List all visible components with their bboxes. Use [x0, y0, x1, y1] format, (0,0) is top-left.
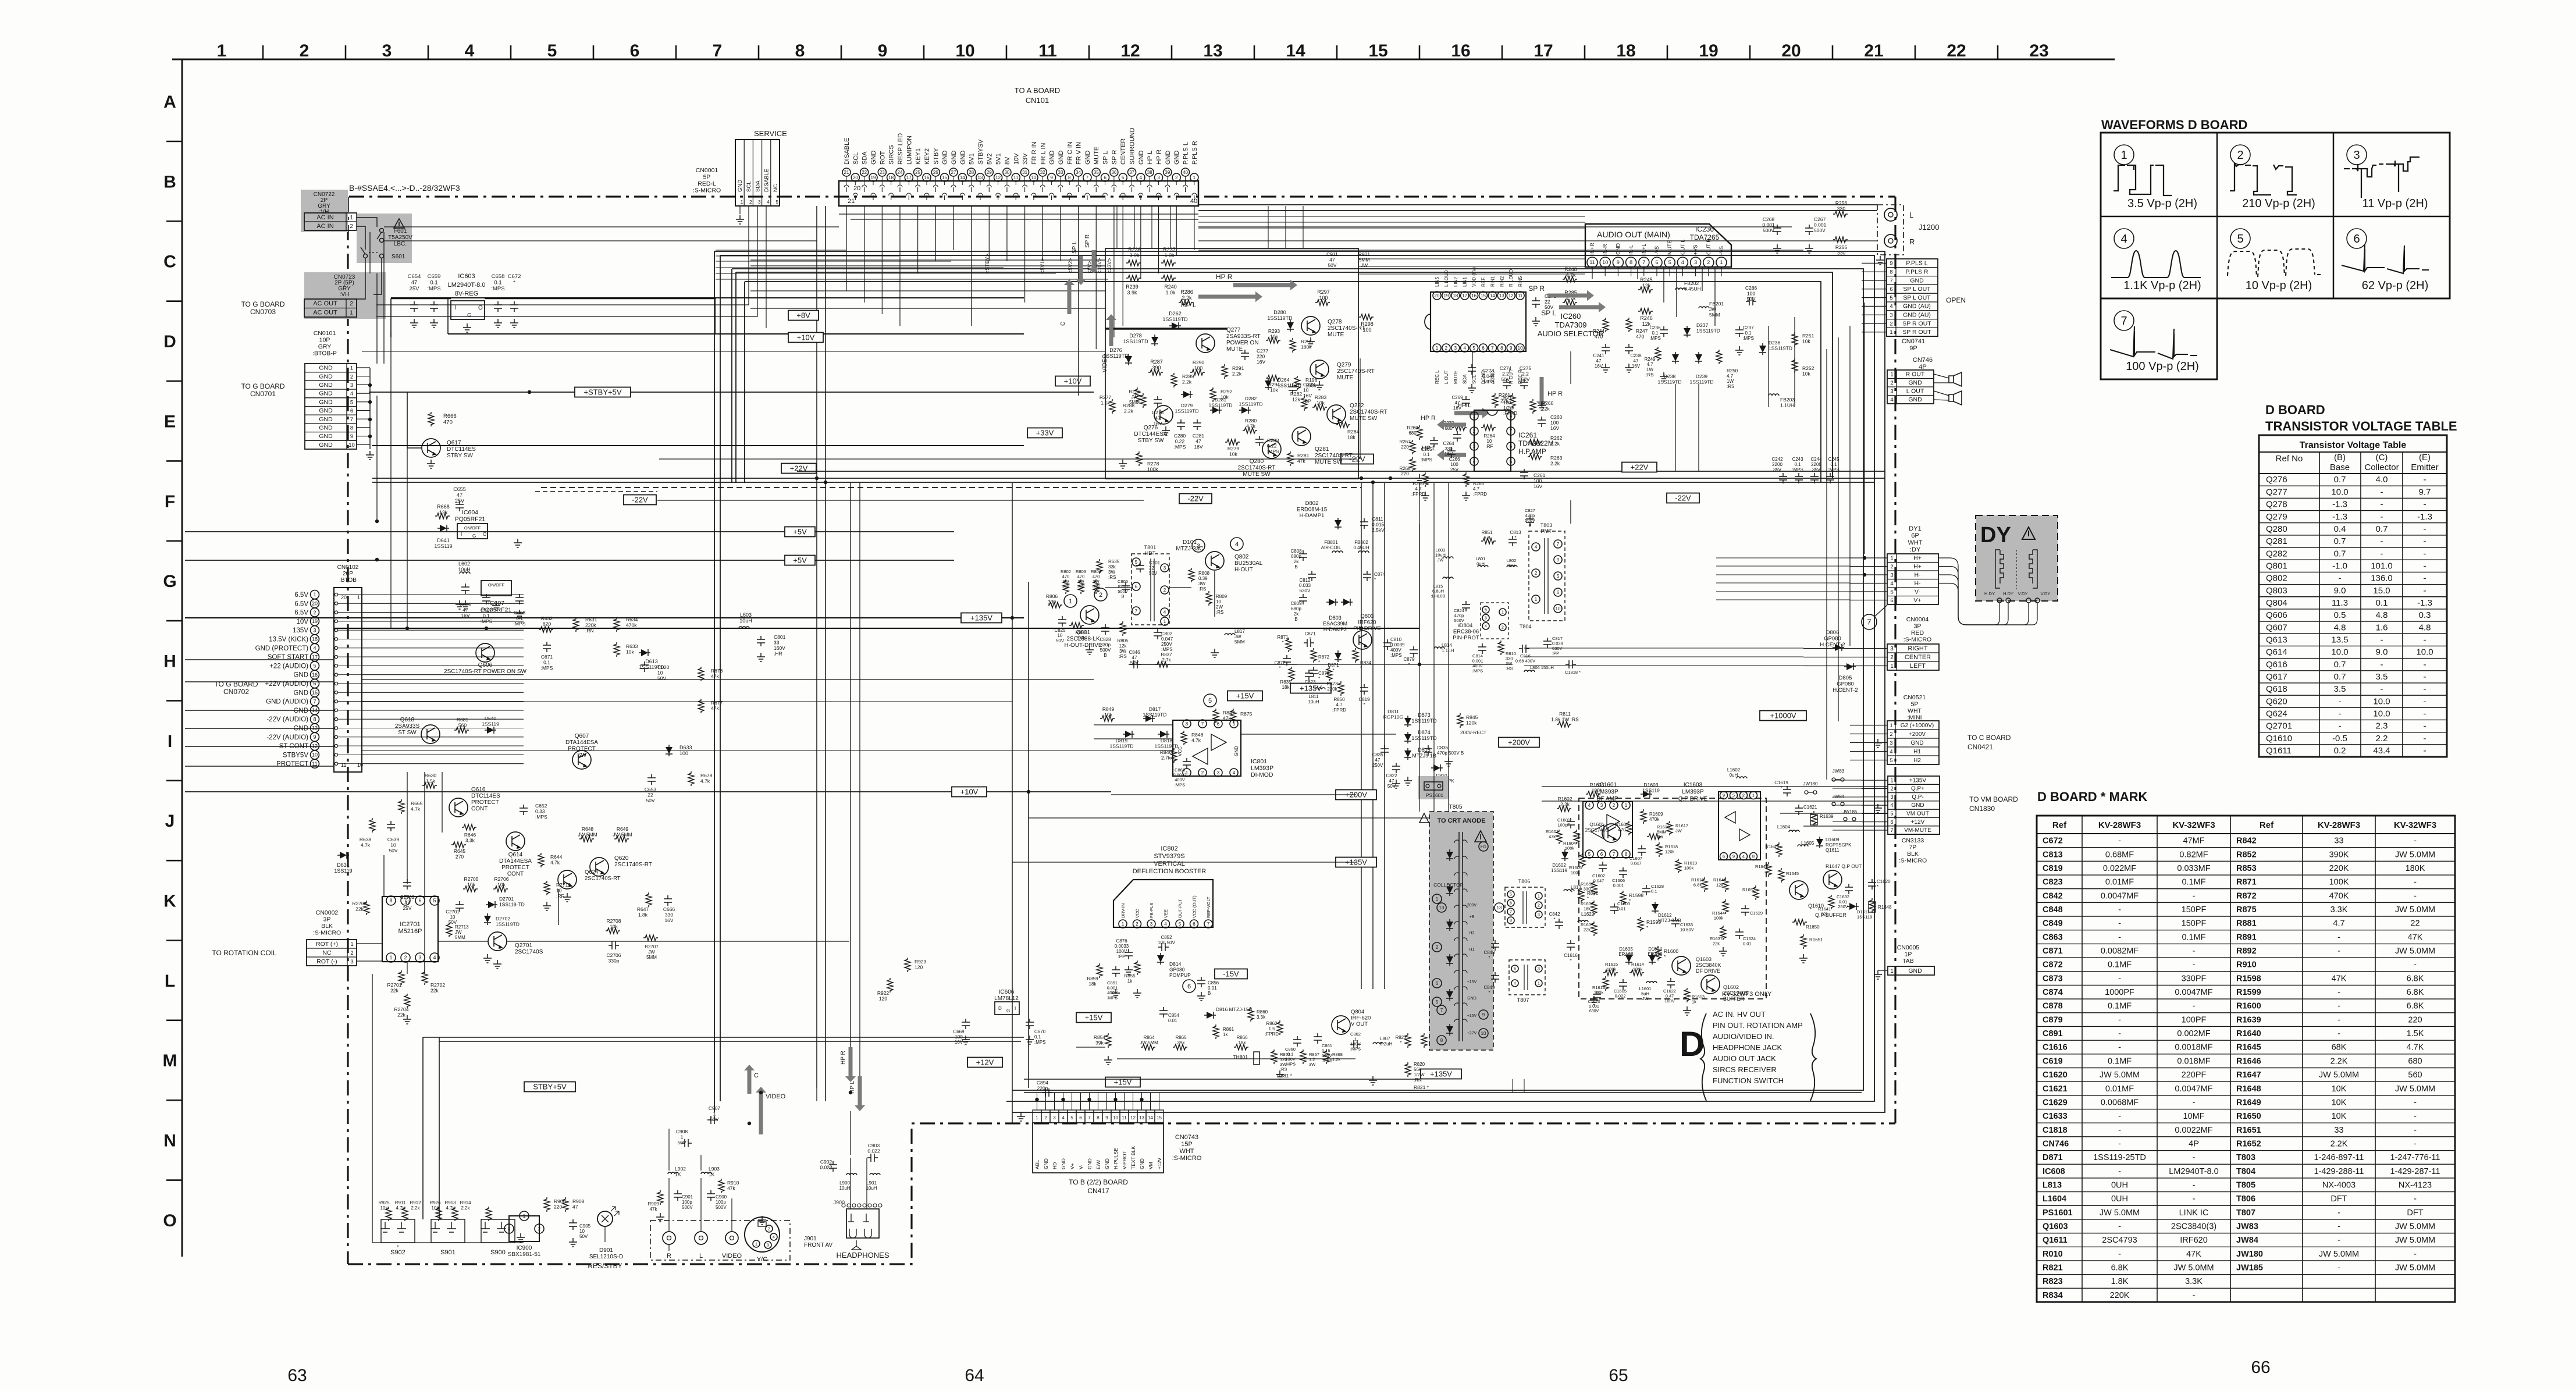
- svg-text:16V: 16V: [1257, 359, 1265, 365]
- svg-text:D1605: D1605: [1619, 947, 1633, 952]
- svg-text:GND (PROTECT): GND (PROTECT): [255, 645, 309, 652]
- svg-text:4: 4: [1890, 304, 1892, 310]
- resistor R2706: [493, 886, 508, 892]
- svg-text:220PF: 220PF: [2182, 1070, 2207, 1080]
- svg-text:NC: NC: [773, 184, 779, 192]
- svg-text:-: -: [2381, 500, 2383, 510]
- wire: DY1 to yoke curves: [1938, 558, 1999, 625]
- svg-text:C267: C267: [1814, 216, 1826, 222]
- svg-text:100k: 100k: [1633, 967, 1643, 972]
- svg-text:SCL: SCL: [746, 182, 752, 192]
- resistor R644: [538, 853, 544, 867]
- svg-text:*: *: [1309, 636, 1311, 642]
- svg-text:R282: R282: [1290, 391, 1303, 397]
- svg-text:-: -: [2337, 947, 2340, 956]
- svg-text:WHT: WHT: [1179, 1148, 1194, 1155]
- svg-text:0.22: 0.22: [1175, 439, 1185, 444]
- resistor R803: [1078, 579, 1084, 594]
- svg-text:PS1601: PS1601: [1426, 792, 1444, 798]
- diode D282: [1239, 407, 1251, 414]
- svg-text:I: I: [168, 732, 172, 751]
- svg-text:C653: C653: [645, 787, 657, 792]
- svg-text::RN: :RN: [1414, 1077, 1422, 1083]
- capacitor C861: [1314, 1033, 1322, 1044]
- wire: mesh verticals: [1663, 267, 1664, 303]
- svg-text:LEFT: LEFT: [1910, 663, 1926, 670]
- ground CN0743: [1017, 1112, 1025, 1121]
- svg-text:2SC1740S-RT: 2SC1740S-RT: [1328, 325, 1365, 332]
- svg-text:210 Vp-p (2H): 210 Vp-p (2H): [2242, 197, 2315, 210]
- svg-text:4: 4: [1890, 397, 1893, 403]
- capacitor C856: [1197, 977, 1205, 987]
- transistor Q278 2SC1740S-RT MUTE: [1301, 316, 1320, 335]
- svg-text:0.33: 0.33: [535, 809, 545, 814]
- svg-text:1SS119TD: 1SS119TD: [1769, 346, 1792, 351]
- svg-text:Q281: Q281: [1315, 446, 1329, 453]
- svg-text:J1200: J1200: [1919, 223, 1939, 232]
- svg-text:50V: 50V: [449, 920, 457, 925]
- capacitor C243: [1795, 473, 1803, 483]
- resistor R823b: [1405, 1033, 1411, 1048]
- coil L802: [1507, 565, 1517, 567]
- svg-text:0.033MF: 0.033MF: [2177, 864, 2210, 873]
- capacitor C1606: [1619, 867, 1627, 878]
- svg-text:R237: R237: [1163, 247, 1176, 252]
- svg-text:T803: T803: [1540, 522, 1553, 528]
- svg-text:+135V: +135V: [970, 613, 992, 622]
- svg-text:GND: GND: [319, 433, 333, 440]
- svg-text:S900: S900: [490, 1249, 506, 1256]
- svg-text:4.7k: 4.7k: [396, 1205, 405, 1211]
- svg-text:-: -: [2424, 721, 2426, 731]
- svg-text:GND: GND: [1104, 1158, 1110, 1169]
- svg-text:R871: R871: [2236, 878, 2257, 887]
- svg-text:470k: 470k: [1649, 817, 1660, 822]
- svg-text:G2 (+1000V): G2 (+1000V): [1901, 723, 1934, 729]
- svg-text:OPEN: OPEN: [1946, 296, 1966, 304]
- svg-text:-: -: [2193, 891, 2196, 901]
- resistor R811: [1557, 721, 1571, 727]
- svg-text:Q802: Q802: [2266, 574, 2287, 584]
- svg-text:0UH: 0UH: [2111, 1180, 2128, 1190]
- svg-text:D278: D278: [1129, 333, 1142, 339]
- svg-text:0.047: 0.047: [1482, 373, 1495, 379]
- svg-text:C802: C802: [1161, 631, 1173, 636]
- svg-text:1.5K: 1.5K: [2407, 1029, 2424, 1038]
- svg-text:R298: R298: [1361, 321, 1374, 327]
- svg-text:2: 2: [538, 1226, 541, 1232]
- resistor R1641: [1828, 895, 1834, 909]
- svg-text:33: 33: [2334, 1126, 2343, 1135]
- svg-text:HP L: HP L: [1181, 301, 1197, 309]
- capacitor C801: [757, 636, 765, 646]
- wire: left feed wires: [185, 659, 334, 660]
- capacitor C876: [1125, 949, 1133, 959]
- svg-text:0uH: 0uH: [1476, 561, 1485, 567]
- connector CN0002 ROT: [307, 940, 357, 966]
- svg-text:WHT: WHT: [1908, 539, 1922, 546]
- svg-text:Q606: Q606: [2266, 610, 2287, 620]
- svg-text:9: 9: [1482, 1012, 1485, 1018]
- svg-text:VM: VM: [1148, 1162, 1154, 1169]
- mark table frame: [2037, 816, 2455, 1302]
- svg-text:L: L: [699, 1253, 703, 1260]
- svg-text:0.0047MF: 0.0047MF: [2175, 988, 2212, 997]
- svg-text:-: -: [2424, 684, 2426, 694]
- svg-text:SW: SW: [577, 752, 587, 759]
- svg-text:-: -: [2118, 837, 2121, 846]
- svg-text:D871: D871: [2043, 1153, 2063, 1162]
- arrow HP L bottom: [855, 1076, 865, 1111]
- svg-text:7: 7: [1207, 922, 1210, 927]
- svg-text:19: 19: [312, 618, 318, 624]
- diode D803 ESAC39M H-DAMP2: [1326, 599, 1338, 606]
- IC IC261 TDA2822M H.P.AMP: [1474, 410, 1511, 471]
- svg-text:-: -: [2193, 960, 2196, 970]
- svg-text:3W: 3W: [1119, 649, 1126, 654]
- svg-text:330p: 330p: [609, 958, 620, 964]
- svg-text:0.001: 0.001: [1613, 883, 1624, 888]
- svg-text:+12V: +12V: [1157, 1158, 1162, 1169]
- wire: +5V bus 1: [185, 531, 954, 532]
- svg-text:Q803: Q803: [1360, 613, 1374, 620]
- svg-text:-: -: [2424, 586, 2426, 596]
- flyback transformer T805 shaded block TO CRT ANODE: [1429, 812, 1493, 1050]
- svg-text:47K: 47K: [2332, 974, 2347, 983]
- voltage box +10V c: [952, 787, 987, 797]
- svg-text::MPS: :MPS: [1742, 336, 1754, 341]
- jumper JW185: [1844, 817, 1847, 821]
- svg-text:BLK: BLK: [1907, 851, 1919, 858]
- svg-text:MUTE SW: MUTE SW: [1243, 471, 1271, 478]
- svg-text:C1616: C1616: [1564, 953, 1578, 958]
- svg-text:0.1: 0.1: [1652, 330, 1659, 336]
- svg-text:TRANSISTOR VOLTAGE TABLE: TRANSISTOR VOLTAGE TABLE: [2265, 419, 2457, 433]
- svg-text:1.1UH: 1.1UH: [1780, 403, 1794, 408]
- capacitor C824: [1462, 601, 1470, 611]
- svg-text:3: 3: [1217, 770, 1220, 775]
- svg-text:-: -: [2424, 536, 2426, 546]
- resistor R810: [1498, 641, 1504, 655]
- svg-text::LHL0B: :LHL0B: [1431, 593, 1445, 599]
- svg-text:Q607: Q607: [2266, 622, 2287, 632]
- svg-text::S-MICRO: :S-MICRO: [1903, 636, 1931, 643]
- svg-text:6: 6: [350, 408, 353, 414]
- svg-text:IN+R: IN+R: [1589, 243, 1595, 255]
- svg-text:-: -: [2424, 549, 2426, 558]
- svg-text:4: 4: [773, 1236, 775, 1240]
- svg-text:1: 1: [217, 41, 227, 61]
- svg-text:-22V: -22V: [632, 495, 648, 504]
- svg-text:RED: RED: [1911, 629, 1924, 636]
- svg-text:20: 20: [853, 185, 860, 192]
- svg-text:OUT L: OUT L: [1680, 240, 1685, 255]
- svg-text:560: 560: [458, 723, 467, 728]
- svg-text:Q.P-: Q.P-: [1912, 794, 1924, 801]
- svg-text:0.45UH: 0.45UH: [1684, 286, 1701, 292]
- svg-text:R821 *: R821 *: [1414, 1084, 1429, 1090]
- svg-text:1: 1: [1890, 555, 1893, 561]
- svg-text:2: 2: [1473, 429, 1476, 434]
- svg-text:CN0102: CN0102: [337, 564, 359, 571]
- svg-text:R678: R678: [700, 773, 713, 778]
- svg-text:1: 1: [1436, 896, 1439, 902]
- svg-text:400V: 400V: [1390, 648, 1401, 653]
- svg-text:100K: 100K: [2329, 878, 2349, 887]
- svg-text:H1: H1: [1481, 844, 1487, 849]
- svg-text:IC2701: IC2701: [400, 921, 420, 928]
- svg-text:-0.5: -0.5: [2332, 734, 2347, 743]
- coil L1622: [1578, 920, 1588, 922]
- svg-text:C819: C819: [2043, 864, 2063, 873]
- voltage box +33V: [1027, 428, 1062, 438]
- svg-text::MPS: :MPS: [1175, 782, 1185, 788]
- svg-text:47k: 47k: [711, 706, 719, 711]
- svg-text:CN3133: CN3133: [1902, 837, 1924, 844]
- svg-text:VCC: VCC: [1135, 909, 1140, 918]
- capacitor C238: [1625, 344, 1633, 354]
- voltage box +8V: [788, 311, 819, 321]
- zener D815 MTZJ9.1B: [1404, 748, 1411, 760]
- svg-text:250V: 250V: [1161, 642, 1172, 647]
- svg-text:H.DY: H.DY: [1984, 591, 1995, 596]
- svg-text:220K: 220K: [2329, 864, 2349, 873]
- svg-text:2: 2: [313, 610, 316, 616]
- svg-text:270: 270: [456, 854, 464, 860]
- resistor R632: [539, 627, 553, 632]
- svg-text:ON/OFF: ON/OFF: [464, 525, 481, 531]
- svg-text:100k: 100k: [1592, 788, 1603, 794]
- svg-text:10: 10: [1518, 346, 1523, 351]
- transistor Q614 DTA144ESA PROTECT CONT: [506, 832, 525, 851]
- svg-text:SP R OUT: SP R OUT: [1902, 329, 1931, 336]
- svg-text:AIR-COIL: AIR-COIL: [1321, 545, 1342, 550]
- svg-text:D281: D281: [1215, 397, 1227, 403]
- svg-text:-: -: [2414, 891, 2417, 901]
- coil L811: [1315, 688, 1325, 689]
- resistor R681: [454, 727, 469, 733]
- connector CN0743 15P: [1033, 1110, 1041, 1123]
- svg-text:2.2k: 2.2k: [1232, 371, 1242, 377]
- svg-text:R255: R255: [1835, 244, 1848, 250]
- svg-text:RED-L: RED-L: [698, 180, 716, 187]
- svg-text::RS: :RS: [1506, 666, 1513, 671]
- svg-text:470p 500V B: 470p 500V B: [1437, 750, 1464, 756]
- svg-text:Q282: Q282: [1350, 403, 1364, 409]
- svg-text:-: -: [2337, 1222, 2340, 1232]
- svg-text:6: 6: [418, 898, 421, 903]
- diode D262: [1169, 322, 1181, 329]
- svg-text:LBC.: LBC.: [394, 241, 407, 247]
- svg-text:Q803: Q803: [2266, 586, 2287, 596]
- svg-text:1.8k 1W :RS: 1.8k 1W :RS: [1551, 717, 1579, 723]
- svg-text:R850: R850: [1333, 697, 1345, 702]
- connector CN0722 shaded block: [301, 190, 348, 232]
- svg-text:3: 3: [1538, 913, 1540, 917]
- svg-text:5: 5: [313, 663, 316, 669]
- svg-text:C242: C242: [1771, 457, 1783, 462]
- svg-text:R922: R922: [877, 990, 889, 996]
- svg-text:1: 1: [1890, 663, 1894, 670]
- svg-text:1: 1: [313, 592, 316, 597]
- svg-text:C872: C872: [2043, 960, 2063, 970]
- T805 diodes: [1446, 849, 1453, 861]
- svg-text:C2706: C2706: [606, 952, 621, 958]
- svg-text:2.5kV: 2.5kV: [1372, 527, 1385, 533]
- svg-text:4.8: 4.8: [2334, 622, 2346, 632]
- capacitor C2706: [609, 941, 619, 949]
- svg-text:8: 8: [313, 716, 316, 722]
- capacitor C814: [1478, 643, 1486, 654]
- svg-text:12k: 12k: [1292, 397, 1300, 403]
- svg-text:14: 14: [1286, 41, 1305, 61]
- connector J1200 phono jacks: [1877, 205, 1903, 255]
- svg-text:6.5V: 6.5V: [294, 600, 308, 607]
- svg-text:-: -: [2424, 574, 2426, 584]
- svg-text:11.3: 11.3: [2332, 598, 2348, 608]
- svg-text:2: 2: [1535, 571, 1538, 576]
- svg-text:0.0047MF: 0.0047MF: [2101, 891, 2139, 901]
- svg-text:4.7: 4.7: [1415, 486, 1422, 492]
- svg-text:H.DY: H.DY: [2003, 591, 2013, 596]
- svg-text:GND: GND: [1908, 396, 1922, 403]
- svg-text:1: 1: [1890, 329, 1892, 336]
- resistor R1608: [1626, 821, 1632, 835]
- svg-text:G: G: [472, 533, 476, 539]
- svg-text::MPS: :MPS: [427, 286, 440, 292]
- svg-text:R1640: R1640: [2236, 1029, 2261, 1038]
- capacitor C862: [1350, 1040, 1361, 1048]
- svg-text:30: 30: [1004, 170, 1009, 175]
- svg-text:VIDEO: VIDEO: [1102, 354, 1108, 372]
- svg-text:10k: 10k: [497, 882, 506, 888]
- svg-text:LM78L12: LM78L12: [994, 995, 1019, 1002]
- waveform 3 trace: [2344, 157, 2420, 198]
- svg-text:10k: 10k: [1270, 387, 1278, 393]
- svg-text:M5216P: M5216P: [399, 928, 422, 935]
- resistor R1616: [1603, 976, 1609, 991]
- svg-text:*: *: [1360, 666, 1362, 671]
- svg-text:10.0: 10.0: [2331, 648, 2348, 657]
- svg-text:D802: D802: [1305, 500, 1319, 507]
- svg-text:100k: 100k: [1607, 967, 1617, 972]
- svg-text:C261: C261: [1533, 472, 1546, 478]
- svg-text:D640: D640: [485, 716, 497, 721]
- resistor R847: [1213, 709, 1219, 723]
- svg-text:3: 3: [350, 382, 353, 389]
- svg-text:C620: C620: [657, 664, 670, 670]
- waveform 1 circled number: [2114, 145, 2134, 165]
- svg-text:IC801: IC801: [1251, 758, 1267, 765]
- svg-text:8: 8: [1440, 1038, 1443, 1043]
- svg-text:SP R: SP R: [1528, 284, 1545, 293]
- svg-text:LM2940T-8.0: LM2940T-8.0: [448, 282, 486, 289]
- svg-text:DI-MOD: DI-MOD: [1251, 771, 1273, 778]
- svg-text:BU2530AL: BU2530AL: [1234, 560, 1263, 567]
- svg-text:KEY2: KEY2: [924, 148, 931, 165]
- svg-text:1: 1: [350, 365, 353, 372]
- svg-text:C245: C245: [1828, 457, 1840, 462]
- svg-text:1SS119TD: 1SS119TD: [1175, 408, 1199, 414]
- capacitor C654: [410, 301, 418, 312]
- svg-text:4.7k: 4.7k: [361, 842, 371, 848]
- waveform 1 trace: [2114, 165, 2172, 195]
- svg-text:R648: R648: [582, 826, 594, 832]
- resistor R236: [1126, 260, 1141, 266]
- svg-text:SDA: SDA: [755, 180, 761, 192]
- resistor R1652: [1753, 885, 1759, 900]
- svg-text:MUTE: MUTE: [1337, 375, 1354, 381]
- capacitor C283: [1255, 436, 1264, 446]
- voltage box +15V vert: [1105, 1077, 1140, 1087]
- capacitor C658: [494, 301, 502, 312]
- front AV dash-dot box: [650, 1221, 790, 1260]
- svg-text:5: 5: [1135, 560, 1138, 565]
- svg-text:CN0421: CN0421: [1967, 743, 1993, 751]
- svg-text:0.0022MF: 0.0022MF: [2175, 1126, 2212, 1135]
- svg-text:G: G: [467, 312, 472, 319]
- svg-text:4: 4: [1062, 1115, 1065, 1120]
- svg-text:20: 20: [853, 175, 858, 180]
- capacitor C260: [1538, 417, 1546, 427]
- svg-text:3.3K: 3.3K: [2331, 905, 2348, 915]
- svg-text:R1651: R1651: [1809, 937, 1823, 942]
- svg-text::RF: :RF: [556, 893, 564, 899]
- svg-text:2SC1740S-RT: 2SC1740S-RT: [1238, 465, 1276, 471]
- svg-text:0.0018MF: 0.0018MF: [2175, 1043, 2212, 1052]
- svg-text:T805: T805: [1449, 804, 1463, 810]
- svg-text:ROT (+): ROT (+): [316, 941, 338, 948]
- svg-text:C672: C672: [2043, 837, 2063, 846]
- svg-text:22k: 22k: [397, 1012, 405, 1018]
- svg-text:R1609: R1609: [1649, 812, 1663, 817]
- svg-text:D804: D804: [1460, 622, 1473, 629]
- resistor R1637: [1720, 926, 1726, 940]
- svg-text:10: 10: [312, 752, 318, 758]
- svg-text:3: 3: [1485, 617, 1487, 621]
- svg-text:180K: 180K: [2406, 864, 2425, 873]
- resistor R1643: [1723, 877, 1728, 892]
- svg-text:-: -: [2337, 1015, 2340, 1024]
- svg-text:SP L OUT: SP L OUT: [1903, 286, 1931, 293]
- svg-text:R806: R806: [1046, 593, 1058, 599]
- diode D814 GP080 POMPUP: [1157, 953, 1164, 965]
- svg-text:T803: T803: [2236, 1153, 2255, 1162]
- svg-text:-: -: [2337, 988, 2340, 997]
- svg-text:R926: R926: [429, 1200, 441, 1205]
- svg-text:6: 6: [313, 681, 316, 686]
- resistor R842b: [1578, 888, 1584, 902]
- svg-text:16V: 16V: [664, 917, 673, 923]
- svg-text:1.6: 1.6: [2376, 622, 2388, 632]
- svg-text:H-OUT-DRIVE: H-OUT-DRIVE: [1065, 642, 1102, 649]
- svg-text:*: *: [1587, 896, 1589, 901]
- svg-text:-1.3: -1.3: [2417, 598, 2432, 608]
- svg-text:B: B: [1104, 653, 1106, 658]
- svg-text:100: 100: [1450, 462, 1458, 467]
- svg-text:-: -: [2414, 1139, 2417, 1148]
- svg-text:3: 3: [418, 955, 421, 960]
- svg-text:I: I: [454, 305, 456, 311]
- svg-text:FB203: FB203: [1780, 397, 1795, 403]
- svg-text:6: 6: [630, 41, 640, 61]
- svg-text:R1647 Q.P OUT: R1647 Q.P OUT: [1826, 863, 1862, 869]
- svg-text:10.0: 10.0: [2373, 709, 2390, 719]
- svg-text:IC603: IC603: [458, 273, 475, 280]
- svg-text:C852: C852: [1161, 935, 1172, 940]
- svg-text:8: 8: [350, 425, 353, 431]
- resistor R677: [698, 699, 704, 713]
